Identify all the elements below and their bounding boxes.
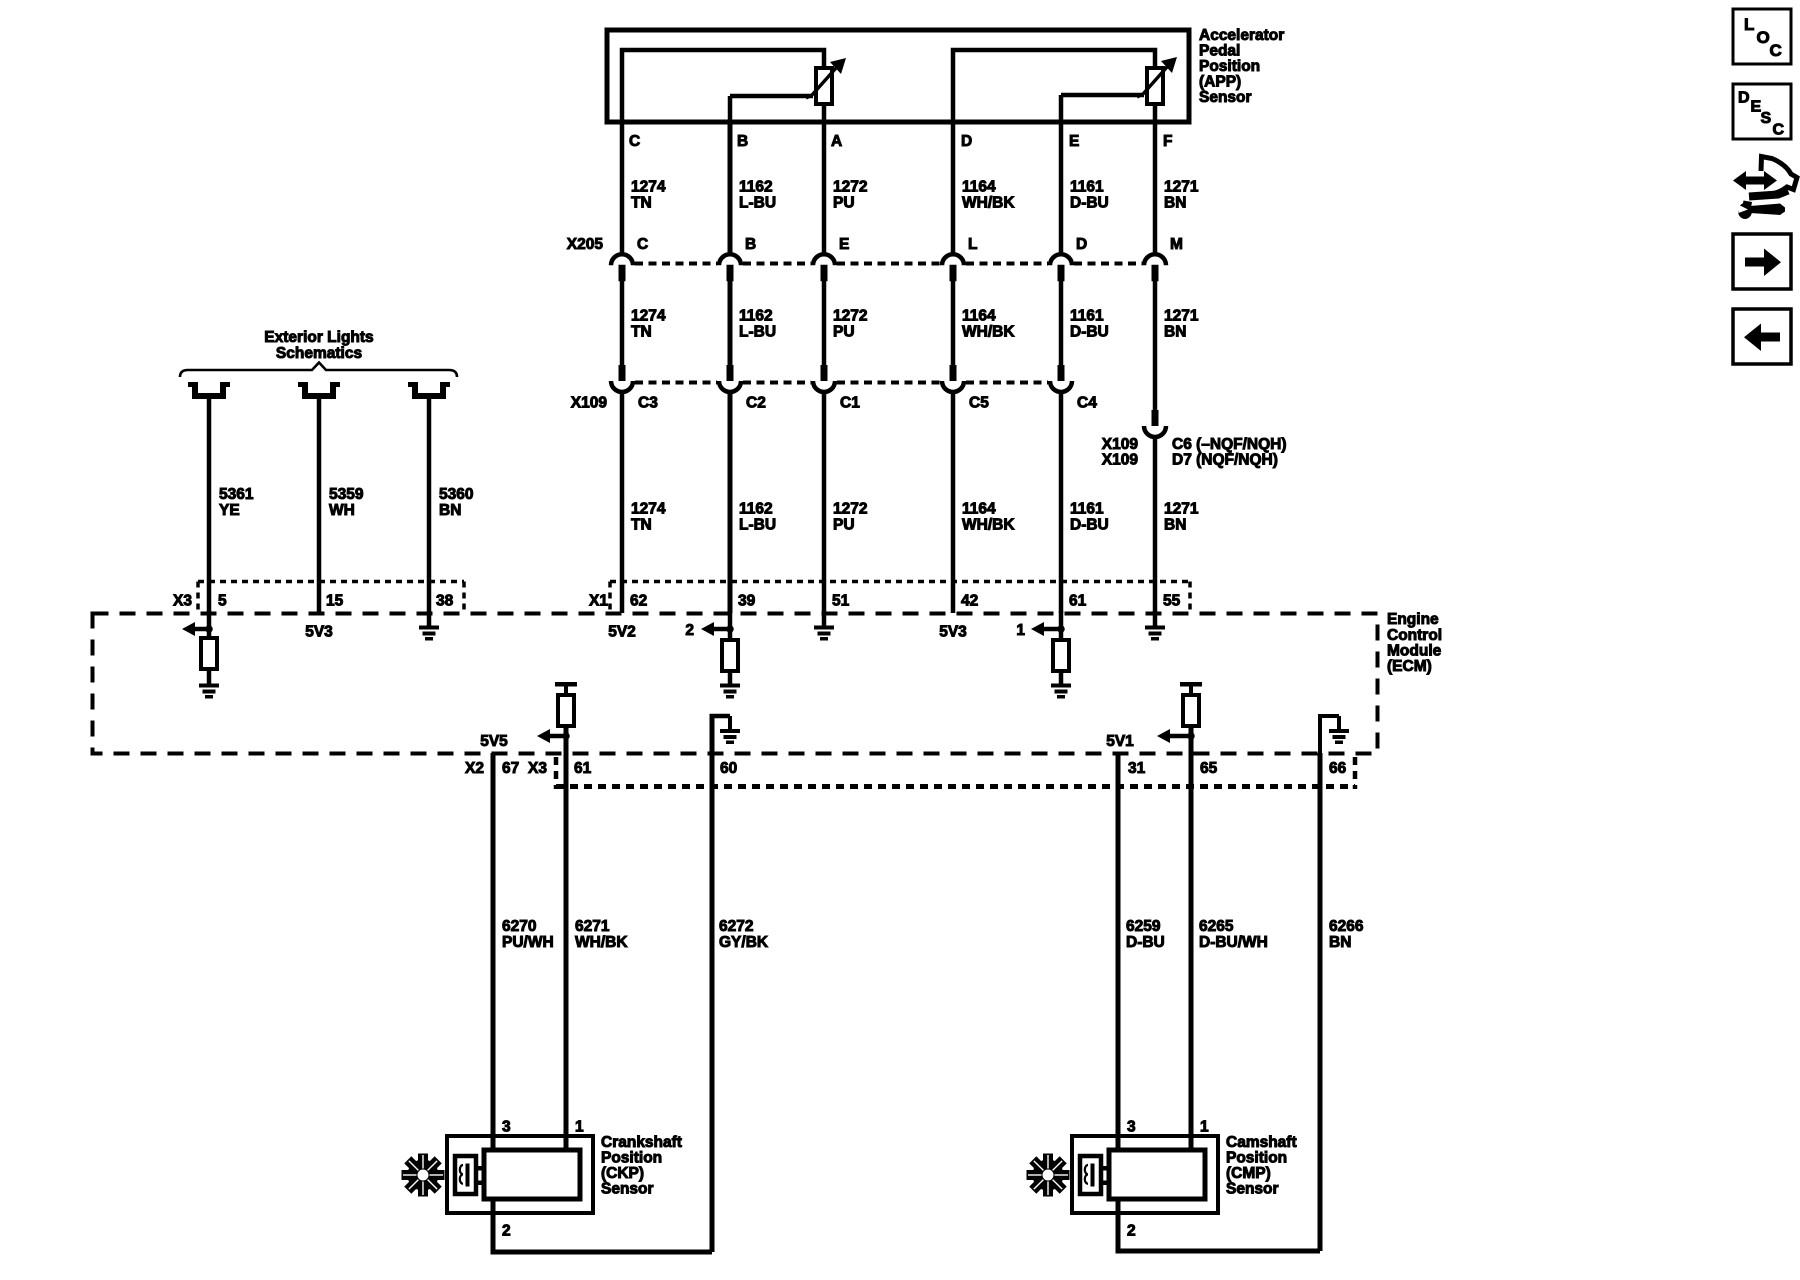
APP sensor box [607,30,1189,122]
wire label 1272 PU (row 2) [833,308,867,341]
svg-text:C: C [1770,41,1782,60]
X2 pin 67 number [502,760,519,777]
potentiometer 1 body [816,68,832,104]
X109 C6/D7 labels [1102,436,1287,469]
CMP sensor inner box [1109,1150,1205,1199]
svg-text:1274: 1274 [631,179,666,196]
X205 terminal M [1144,254,1166,281]
svg-text:L-BU: L-BU [739,195,776,212]
potentiometer 2 lower wire [1153,104,1158,122]
svg-text:2: 2 [685,622,694,639]
svg-text:D: D [1738,90,1750,107]
svg-text:TN: TN [631,324,652,341]
svg-text:Pedal: Pedal [1199,43,1240,60]
X205 label [567,236,604,253]
wire label 6270 PU/WH [502,918,554,951]
svg-text:1162: 1162 [739,179,773,196]
potentiometer 2 loop wire [953,50,1155,122]
svg-text:1162: 1162 [739,308,773,325]
5V3 net label [939,624,967,641]
svg-text:Control: Control [1387,627,1442,644]
svg-text:X109: X109 [1102,452,1139,469]
svg-text:C6 (–NQF/NQH): C6 (–NQF/NQH) [1172,436,1287,453]
svg-text:1161: 1161 [1070,179,1104,196]
svg-text:62: 62 [630,593,647,610]
svg-text:BN: BN [1329,934,1351,951]
svg-text:C5: C5 [969,395,989,412]
wire E segment to X1 [1059,392,1064,613]
svg-text:31: 31 [1128,760,1146,777]
X205 terminal B [719,254,741,281]
X205 terminal E [813,254,835,281]
svg-text:Accelerator: Accelerator [1199,27,1284,44]
X205 pin letter B [745,236,756,253]
svg-text:2: 2 [1127,1223,1136,1240]
CKP sensor label [601,1134,682,1198]
wire E segment to X205 [1059,122,1064,253]
X3 label [173,593,192,610]
svg-text:Schematics: Schematics [276,345,362,362]
svg-text:1271: 1271 [1164,501,1199,518]
svg-text:2: 2 [502,1223,511,1240]
wire pin 60 down [710,714,715,1252]
svg-text:D-BU: D-BU [1070,517,1109,534]
wire label 1162 L-BU (row 3) [739,501,776,534]
svg-text:(ECM): (ECM) [1387,658,1432,675]
ground below pin 61 resistor [1051,671,1071,699]
wire C segment to X1 [620,392,625,613]
ECM dashed box [93,614,1378,754]
svg-text:S: S [1761,110,1772,127]
svg-text:TN: TN [631,195,652,212]
CMP reluctor gear icon [1027,1154,1070,1197]
wire label 6271 WH/BK [575,918,628,951]
svg-text:1271: 1271 [1164,308,1199,325]
svg-text:60: 60 [720,760,737,777]
wire label 1274 TN (row 1) [631,179,666,212]
X109 terminal C2 [719,365,741,392]
wire label 1164 WH/BK (row 1) [962,179,1015,212]
svg-text:(CMP): (CMP) [1226,1165,1271,1182]
svg-text:D-BU: D-BU [1126,934,1165,951]
wire B segment to X205 [728,122,733,253]
svg-text:X3: X3 [173,593,192,610]
wire label 1274 TN (row 2) [631,308,666,341]
svg-text:1: 1 [1200,1119,1209,1136]
svg-text:D: D [1076,236,1087,253]
Exterior Lights Schematics heading [264,329,373,362]
wire label 1164 WH/BK (row 2) [962,308,1015,341]
svg-text:X205: X205 [567,236,604,253]
X205 pin letter L [968,236,977,253]
svg-text:C: C [1773,122,1785,139]
svg-text:55: 55 [1163,593,1181,610]
X205 dashed tie line [635,262,1142,266]
svg-text:BN: BN [1164,324,1186,341]
svg-text:1274: 1274 [631,501,666,518]
lamp terminal 2 [298,382,340,396]
wire D segment to X1 [951,392,956,613]
svg-text:1161: 1161 [1070,308,1104,325]
svg-text:1272: 1272 [833,308,867,325]
X1 connector dotted box [610,582,1190,612]
CKP sensor inner box [484,1150,580,1199]
svg-text:39: 39 [738,593,756,610]
potentiometer 1 lower wire [822,104,827,122]
svg-text:F: F [1163,133,1172,150]
wire X3 pin 65 down [1189,726,1194,1152]
svg-text:5V3: 5V3 [939,624,967,641]
X109 terminal C5 [942,365,964,392]
APP sensor label [1199,27,1284,106]
back arrow icon box [1733,309,1791,364]
svg-text:B: B [737,133,748,150]
svg-text:L-BU: L-BU [739,324,776,341]
arrow toward 5V1 [1157,729,1195,743]
svg-text:Module: Module [1387,643,1442,660]
svg-text:6266: 6266 [1329,918,1364,935]
CMP pin 2 number [1127,1223,1136,1240]
CKP pin 2 number [502,1223,511,1240]
internal ground at pin 60 [712,716,740,753]
potentiometer 2 wiper wire [1061,95,1144,122]
svg-text:L: L [968,236,977,253]
svg-text:5V5: 5V5 [480,733,508,750]
svg-text:C3: C3 [638,395,658,412]
X109 label [571,395,608,412]
wire label 1161 D-BU (row 2) [1070,308,1109,341]
X205 pin letter E [839,236,849,253]
wire label 1271 BN (row 1) [1164,179,1199,212]
X205 pin letter D [1076,236,1087,253]
pull-up resistor at pin 65 [1180,682,1202,726]
forward arrow icon box [1733,234,1791,289]
svg-text:61: 61 [1069,593,1087,610]
potentiometer 2 wiper arrow [1137,57,1177,97]
wire pin 31 down to CMP [1116,753,1121,1152]
bottom pin numbers [574,760,1347,777]
arrow 2 at pin 39 [685,622,733,639]
wire label 6259 D-BU [1126,918,1165,951]
CMP sensor label [1226,1134,1297,1198]
wire 5360 BN [427,399,432,613]
svg-text:66: 66 [1329,760,1347,777]
svg-text:6270: 6270 [502,918,536,935]
svg-text:1274: 1274 [631,308,666,325]
potentiometer 1 loop wire [622,50,824,122]
svg-text:5: 5 [218,593,227,610]
svg-text:3: 3 [502,1119,511,1136]
X205 terminal D [1050,254,1072,281]
svg-text:Sensor: Sensor [1226,1181,1279,1198]
wire C segment to X205 [620,122,625,253]
ground at X3 pin 38 [419,611,439,641]
wire X2 pin 67 down to CKP [491,753,496,1152]
wire label 1162 L-BU (row 2) [739,308,776,341]
svg-text:1272: 1272 [833,501,867,518]
svg-text:5360: 5360 [439,486,473,503]
ground below pin 39 resistor [720,671,740,699]
svg-text:E: E [839,236,849,253]
svg-text:Position: Position [1199,58,1260,75]
svg-text:Sensor: Sensor [1199,89,1252,106]
X109 pin label C3 [638,395,658,412]
svg-text:5361: 5361 [219,486,254,503]
svg-text:Position: Position [1226,1150,1287,1167]
CKP pickup element [455,1156,484,1194]
svg-text:BN: BN [1164,195,1186,212]
CKP pin numbers 3 and 1 [502,1119,584,1136]
X3 pin numbers 5 15 38 [218,593,454,610]
svg-text:(CKP): (CKP) [601,1165,644,1182]
svg-text:TN: TN [631,517,652,534]
svg-text:X2: X2 [465,760,484,777]
svg-text:D7 (NQF/NQH): D7 (NQF/NQH) [1172,452,1278,469]
5V2 net label [608,624,636,641]
wire D segment to X205 [951,122,956,253]
LOC icon box [1733,9,1791,64]
wire label 1271 BN (row 3) [1164,501,1199,534]
wire F segment to X205 [1153,122,1158,253]
resistor at pin 39 [722,640,738,671]
svg-text:BN: BN [439,502,461,519]
svg-text:Crankshaft: Crankshaft [601,1134,682,1151]
svg-text:Exterior Lights: Exterior Lights [264,329,373,346]
wire X3 pin 61 down [564,726,569,1152]
DESC icon box [1733,84,1791,139]
wire from X3 pin 5 into ECM [207,611,212,638]
ground at X1 pin 51 [814,611,834,641]
wire A segment to X1 [822,392,827,613]
svg-text:WH/BK: WH/BK [962,324,1015,341]
X109 terminal C6/D7 on wire F [1144,410,1166,437]
pull-up resistor at pin 61 (X3) [555,682,577,726]
svg-text:5V1: 5V1 [1106,733,1134,750]
svg-text:L: L [1744,15,1754,34]
svg-text:Camshaft: Camshaft [1226,1134,1297,1151]
arrow 1 at pin 61 [1016,622,1064,639]
X3 bottom dotted box [556,757,1355,789]
wire label 6272 GY/BK [719,918,769,951]
svg-text:65: 65 [1200,760,1218,777]
5V5 net label [480,733,508,750]
svg-text:C2: C2 [746,395,766,412]
X2 label [465,760,484,777]
svg-text:WH/BK: WH/BK [962,517,1015,534]
X3 connector dotted box (left) [198,582,464,612]
wire label 6266 BN [1329,918,1364,951]
wire 5361 YE [207,399,212,613]
wire label 1274 TN (row 3) [631,501,666,534]
CKP reluctor gear icon [402,1154,445,1197]
5V1 net label [1106,733,1134,750]
CMP pin 2 return wire [1118,1199,1320,1251]
svg-text:C: C [629,133,640,150]
svg-text:1164: 1164 [962,179,996,196]
svg-text:WH/BK: WH/BK [575,934,628,951]
svg-text:1272: 1272 [833,179,867,196]
X3 label (bottom) [528,760,547,777]
svg-text:6265: 6265 [1199,918,1234,935]
svg-text:Sensor: Sensor [601,1181,654,1198]
svg-text:42: 42 [961,593,978,610]
wire label 5361 YE [219,486,254,519]
wire label 1162 L-BU (row 1) [739,179,776,212]
X109 pin label C4 [1077,395,1097,412]
svg-text:B: B [745,236,756,253]
svg-text:X3: X3 [528,760,547,777]
wire label 5360 BN [439,486,473,519]
svg-text:Position: Position [601,1150,662,1167]
svg-text:D: D [961,133,972,150]
wire label 1161 D-BU (row 3) [1070,501,1109,534]
wire F segment to X109 [1153,280,1158,412]
svg-text:6271: 6271 [575,918,610,935]
svg-text:C4: C4 [1077,395,1097,412]
svg-text:61: 61 [574,760,592,777]
svg-text:38: 38 [436,593,454,610]
svg-text:YE: YE [219,502,240,519]
wire from X1 pin 39 into ECM [728,611,733,640]
X109 terminal C1 [813,365,835,392]
wire pin 66 down [1318,753,1323,1251]
wire label 1272 PU (row 1) [833,179,867,212]
svg-text:PU: PU [833,324,855,341]
svg-text:6259: 6259 [1126,918,1161,935]
svg-text:D-BU: D-BU [1070,195,1109,212]
internal ground at pin 66 [1320,716,1349,753]
svg-text:1164: 1164 [962,501,996,518]
svg-text:3: 3 [1127,1119,1136,1136]
wire A segment to X205 [822,122,827,253]
X205 terminal L [942,254,964,281]
svg-text:1271: 1271 [1164,179,1199,196]
CKP pin 2 return wire [493,1199,712,1252]
APP pin letters C B A D E F [629,133,1172,150]
svg-text:(APP): (APP) [1199,74,1241,91]
svg-text:PU: PU [833,517,855,534]
svg-text:1: 1 [575,1119,584,1136]
svg-text:A: A [831,133,842,150]
wire label 1164 WH/BK (row 3) [962,501,1015,534]
wire 5359 WH [317,399,322,613]
wire C segment to X109 [620,280,625,367]
svg-text:Engine: Engine [1387,611,1439,628]
svg-text:1161: 1161 [1070,501,1104,518]
svg-text:D-BU: D-BU [1070,324,1109,341]
svg-text:PU: PU [833,195,855,212]
wire A segment to X109 [822,280,827,367]
svg-text:67: 67 [502,760,519,777]
X205 pin letter C [637,236,648,253]
arrow at pin 5 circuit [182,622,213,636]
svg-text:L-BU: L-BU [739,517,776,534]
ground below pin 5 resistor [199,669,219,699]
svg-text:6272: 6272 [719,918,753,935]
svg-text:5V3: 5V3 [305,624,333,641]
lamp terminal 1 [188,382,230,396]
svg-text:C1: C1 [840,395,860,412]
svg-text:WH/BK: WH/BK [962,195,1015,212]
X109 pin label C1 [840,395,860,412]
X205 terminal C [611,254,633,281]
svg-text:1164: 1164 [962,308,996,325]
lamp terminal 3 [408,382,450,396]
X205 pin letter M [1170,236,1183,253]
X109 terminal C3 [611,365,633,392]
wire label 6265 D-BU/WH [1199,918,1268,951]
svg-text:PU/WH: PU/WH [502,934,554,951]
wire label 1271 BN (row 2) [1164,308,1199,341]
resistor at pin 61 [1053,640,1069,671]
svg-text:5359: 5359 [329,486,364,503]
svg-text:GY/BK: GY/BK [719,934,769,951]
svg-text:51: 51 [832,593,850,610]
ECM label [1387,611,1442,675]
svg-text:X109: X109 [571,395,608,412]
svg-text:5V2: 5V2 [608,624,636,641]
svg-text:1: 1 [1016,622,1025,639]
wire B segment to X1 [728,392,733,613]
svg-text:C: C [637,236,648,253]
wire from X1 pin 61 into ECM [1059,611,1064,640]
5V3 net label (left) [305,624,333,641]
ground at X1 pin 55 [1145,611,1165,641]
resistor at pin 5 circuit [201,638,217,669]
wire B segment to X109 [728,280,733,367]
potentiometer 2 body [1147,68,1163,104]
svg-text:M: M [1170,236,1183,253]
navigation icon (arrows and wrench) [1733,157,1797,220]
wire label 1161 D-BU (row 1) [1070,179,1109,212]
wire label 1272 PU (row 3) [833,501,867,534]
svg-text:WH: WH [329,502,355,519]
X109 dashed tie line [635,381,1048,385]
svg-text:1162: 1162 [739,501,773,518]
svg-text:BN: BN [1164,517,1186,534]
X1 label [589,593,608,610]
svg-text:X1: X1 [589,593,608,610]
X109 pin label C5 [969,395,989,412]
brace [180,363,457,378]
CMP pickup element [1080,1156,1109,1194]
svg-text:E: E [1069,133,1079,150]
potentiometer 1 wiper wire [730,96,813,122]
CMP sensor outer box [1072,1136,1218,1213]
wire D segment to X109 [951,280,956,367]
CMP pin numbers 3 and 1 [1127,1119,1209,1136]
potentiometer 1 wiper arrow [806,58,846,98]
wire label 5359 WH [329,486,364,519]
CKP sensor outer box [447,1136,593,1213]
X109 pin label C2 [746,395,766,412]
svg-text:D-BU/WH: D-BU/WH [1199,934,1268,951]
wire F segment to X1 [1153,437,1158,613]
X109 terminal C4 [1050,365,1072,392]
svg-text:X109: X109 [1102,436,1139,453]
X1 pin numbers [630,593,1181,610]
svg-text:15: 15 [326,593,344,610]
svg-text:O: O [1757,28,1770,47]
arrow toward 5V5 [537,729,570,743]
wire E segment to X109 [1059,280,1064,367]
